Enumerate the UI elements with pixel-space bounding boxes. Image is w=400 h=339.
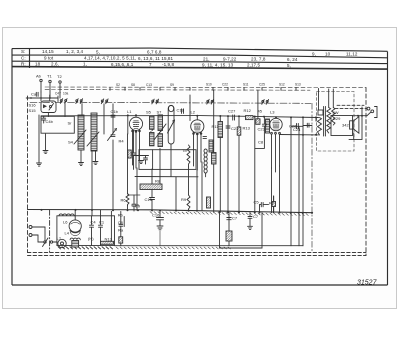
svg-text:6, 24: 6, 24 <box>287 57 298 62</box>
svg-text:L6: L6 <box>63 220 68 225</box>
svg-text:L7: L7 <box>57 236 62 241</box>
svg-text:L2: L2 <box>191 110 196 115</box>
svg-text:R:: R: <box>21 62 26 67</box>
svg-text:18: 18 <box>35 61 41 66</box>
svg-text:C4b: C4b <box>46 119 54 124</box>
svg-text:S8: S8 <box>131 83 135 87</box>
svg-text:9 tot: 9 tot <box>44 55 54 60</box>
svg-text:Sr: Sr <box>68 121 73 126</box>
svg-text:S9: S9 <box>170 83 174 87</box>
svg-text:C23: C23 <box>258 127 266 132</box>
svg-text:Ra: Ra <box>118 228 124 233</box>
svg-text:C7: C7 <box>253 214 259 219</box>
svg-text:2,6,: 2,6, <box>51 62 59 67</box>
svg-text:45: 45 <box>258 109 263 114</box>
svg-text:14,15: 14,15 <box>42 49 54 54</box>
svg-text:C:: C: <box>21 56 26 61</box>
svg-text:5,: 5, <box>96 49 100 54</box>
svg-text:S7: S7 <box>157 110 163 115</box>
svg-text:6, 13,6, 11 15,81: 6, 13,6, 11 15,81 <box>138 56 174 61</box>
svg-text:C22: C22 <box>222 83 228 87</box>
svg-text:T2: T2 <box>57 74 62 79</box>
svg-text:(H): (H) <box>88 236 94 241</box>
svg-text:-1,9,8: -1,9,8 <box>162 62 174 67</box>
svg-text:L3: L3 <box>270 110 275 115</box>
svg-text:S11: S11 <box>243 83 249 87</box>
svg-text:21,: 21, <box>203 56 210 61</box>
svg-text:C4: C4 <box>91 219 97 224</box>
svg-text:C15: C15 <box>145 197 153 202</box>
svg-text:C7: C7 <box>232 216 238 221</box>
svg-text:5,: 5, <box>287 63 291 68</box>
svg-text:L4: L4 <box>65 231 70 236</box>
svg-text:Tb: Tb <box>182 148 187 153</box>
svg-text:C47: C47 <box>55 92 61 96</box>
svg-text:Rb: Rb <box>118 213 124 218</box>
svg-text:R12: R12 <box>244 108 252 113</box>
svg-text:R8: R8 <box>155 179 161 184</box>
svg-text:5W: 5W <box>333 110 339 115</box>
svg-text:R6: R6 <box>121 198 127 203</box>
svg-text:10: 10 <box>325 52 331 57</box>
svg-text:R9: R9 <box>181 197 187 202</box>
svg-text:S2: S2 <box>116 83 120 87</box>
svg-text:9,: 9, <box>312 51 316 56</box>
svg-text:9-7,22: 9-7,22 <box>223 56 237 61</box>
svg-text:6,7 6,8: 6,7 6,8 <box>147 50 162 55</box>
svg-text:C16: C16 <box>152 213 160 218</box>
svg-text:C21: C21 <box>231 126 239 131</box>
svg-text:N13: N13 <box>105 237 113 242</box>
svg-text:C8: C8 <box>118 220 124 225</box>
svg-text:C13: C13 <box>146 83 152 87</box>
svg-text:4,17,14, 4,7,10,2, 5 5,11,: 4,17,14, 4,7,10,2, 5 5,11, <box>84 56 136 61</box>
svg-text:S4: S4 <box>68 140 74 145</box>
svg-text:C5: C5 <box>254 200 260 205</box>
svg-text:S:: S: <box>21 49 25 54</box>
svg-text:R11: R11 <box>212 124 220 129</box>
svg-text:10a: 10a <box>63 92 69 96</box>
svg-text:T1: T1 <box>47 74 52 79</box>
svg-text:S13: S13 <box>295 82 301 86</box>
svg-text:C1: C1 <box>99 219 105 224</box>
svg-text:7: 7 <box>149 62 152 67</box>
svg-text:C19: C19 <box>177 108 185 113</box>
svg-text:C14: C14 <box>132 203 140 208</box>
svg-text:Ca: Ca <box>31 92 37 97</box>
svg-text:23, 7,8: 23, 7,8 <box>251 57 266 62</box>
svg-text:C27: C27 <box>228 109 236 114</box>
svg-text:31527: 31527 <box>357 280 378 287</box>
svg-text:R4: R4 <box>119 139 125 144</box>
svg-text:342: 342 <box>342 123 349 128</box>
svg-text:C29: C29 <box>333 116 341 121</box>
svg-text:R13: R13 <box>243 126 251 131</box>
svg-text:9, 11, 4, 15, 13: 9, 11, 4, 15, 13 <box>202 62 234 67</box>
svg-text:6,15,6,,6,1: 6,15,6,,6,1 <box>111 62 134 67</box>
svg-text:S16: S16 <box>29 103 37 108</box>
svg-text:S12: S12 <box>279 82 285 86</box>
svg-text:C24: C24 <box>293 127 301 132</box>
svg-text:1, 2, 3,4: 1, 2, 3,4 <box>66 49 84 54</box>
svg-text:11,12: 11,12 <box>346 52 358 57</box>
svg-text:C25: C25 <box>259 83 265 87</box>
svg-text:S15: S15 <box>29 108 37 113</box>
svg-text:S10: S10 <box>206 83 212 87</box>
svg-text:2,17,5: 2,17,5 <box>247 63 261 68</box>
svg-text:L1: L1 <box>127 109 132 114</box>
svg-text:C8: C8 <box>258 140 264 145</box>
svg-text:C1b: C1b <box>111 109 119 114</box>
svg-text:S5: S5 <box>146 110 152 115</box>
svg-text:Ab: Ab <box>36 74 42 79</box>
svg-text:1,: 1, <box>83 62 87 67</box>
svg-text:R7: R7 <box>269 201 275 206</box>
